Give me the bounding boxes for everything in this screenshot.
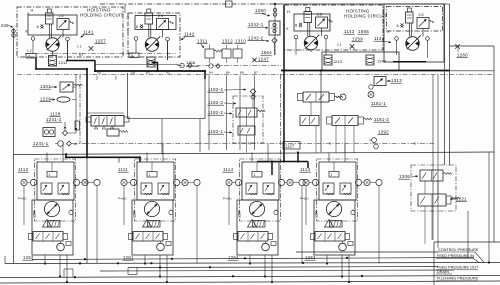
svg-text:1211: 1211 <box>59 60 68 65</box>
svg-text:1142: 1142 <box>184 32 195 37</box>
assembly 1111 pilot valve right <box>158 183 169 194</box>
svg-text:1241-1: 1241-1 <box>33 141 49 146</box>
center distribution box <box>127 73 129 119</box>
assembly 1114 upper box <box>242 162 279 200</box>
svg-text:1 1: 1 1 <box>77 45 82 49</box>
svg-text:1259: 1259 <box>352 37 363 42</box>
bus junction dots <box>84 258 86 260</box>
svg-text:1128: 1128 <box>50 112 61 117</box>
svg-text:1258: 1258 <box>186 60 195 65</box>
svg-text:1264: 1264 <box>228 255 239 260</box>
svg-text:P=(G): P=(G) <box>118 197 127 201</box>
wire 1250 column <box>274 4 276 55</box>
svg-text:1242-1: 1242-1 <box>248 22 264 27</box>
assembly 1111 small fitting right <box>166 242 171 246</box>
wire drop verticals left group <box>75 75 77 134</box>
block3 control valve box <box>294 14 330 31</box>
legend box <box>433 242 435 285</box>
wire block2 port drops <box>135 40 137 53</box>
assembly 1114 pilot valve left <box>246 183 257 194</box>
wire block1 port drops <box>32 40 34 53</box>
assembly 1112 upper box <box>37 162 74 200</box>
svg-text:B4: B4 <box>209 71 213 75</box>
port circle block4 left <box>395 37 399 41</box>
svg-text:1263: 1263 <box>305 255 316 260</box>
test points on left vertical <box>12 29 15 32</box>
assembly 1113 motor <box>326 201 341 216</box>
svg-text:1229: 1229 <box>40 97 51 102</box>
assembly 1113 hatched block <box>330 221 343 228</box>
assembly 1112 motor <box>44 201 59 216</box>
gauge pair box <box>43 128 55 137</box>
winch valve assembly 1111 boundary <box>135 159 176 221</box>
manifold drain triangles <box>94 126 114 129</box>
legend leader slashes <box>475 252 484 263</box>
valve 1206 <box>420 170 443 181</box>
assembly 1112 directional valve <box>33 232 63 242</box>
svg-text:1311: 1311 <box>197 39 208 44</box>
assembly 1113 small fitting right <box>348 242 353 246</box>
arrow down to orifice <box>64 122 66 130</box>
hoisting holding circuit block 1 boundary <box>17 7 123 57</box>
svg-text:1112: 1112 <box>18 167 29 172</box>
wires 1182 block feeds <box>252 94 254 99</box>
wire left vertical main <box>13 28 15 264</box>
valve 1313 <box>374 77 386 86</box>
assembly 1111 upper box <box>137 162 174 200</box>
pump U4 (1144 circuit) <box>397 8 435 50</box>
svg-text:249: 249 <box>1 23 9 28</box>
assembly 1111 aux port <box>169 210 173 214</box>
wire top bus right cap <box>445 3 450 5</box>
wire block3 port drops <box>295 39 297 55</box>
assembly 1112 aux port <box>69 210 73 214</box>
bus line bottom y282 <box>0 281 500 283</box>
port circle block1 left <box>31 37 35 41</box>
svg-text:1113: 1113 <box>300 167 311 172</box>
svg-text:1 2: 1 2 <box>27 49 32 53</box>
assembly 1112 check circle <box>57 243 65 251</box>
wire block2 top stub <box>124 4 126 13</box>
assembly 1111 brake triangle <box>143 220 152 228</box>
port circle block2 right <box>166 37 170 41</box>
bus line y276.5 <box>0 276 500 278</box>
assembly 1111 directional valve <box>133 232 163 242</box>
svg-text:X: X <box>286 27 289 31</box>
wires valve feeds <box>310 102 312 116</box>
thick pressure line A left <box>35 58 37 70</box>
assembly 1111 lower box <box>132 200 173 255</box>
assembly 1114 solenoid <box>252 172 262 178</box>
assembly 1113 check circle <box>339 243 347 251</box>
svg-text:1241-2: 1241-2 <box>46 117 62 122</box>
check valve block 1242-1 <box>269 21 280 35</box>
svg-text:1247: 1247 <box>258 57 269 62</box>
assembly 1113 upper box <box>319 162 356 200</box>
assembly 1111 solenoid <box>147 172 157 178</box>
block 1206/1221 boundary <box>411 165 456 211</box>
accumulator 1248 bellows <box>366 55 374 65</box>
block 4 outer box <box>384 4 444 62</box>
svg-text:X: X <box>25 30 28 34</box>
svg-text:H: H <box>127 16 130 20</box>
orifice diamond <box>62 130 67 135</box>
assembly 1113 solenoid <box>329 172 339 178</box>
bus line feed y252 <box>296 251 438 253</box>
svg-text:1181-1: 1181-1 <box>371 101 386 106</box>
svg-text:1301: 1301 <box>40 84 51 89</box>
assembly 1114 lower box <box>237 200 278 255</box>
1182 valve cluster dash-dot box <box>233 96 263 143</box>
symbols near 1392 <box>372 138 377 143</box>
svg-text:X: X <box>387 30 390 34</box>
assembly 1111 port circles <box>121 179 127 185</box>
assembly 1114 pilot valve right <box>263 183 274 194</box>
junction dots mid <box>86 68 88 70</box>
pilot dash-dot line y65.5 <box>177 65 281 67</box>
svg-text:B8: B8 <box>240 71 244 75</box>
directional valve group C (x300-320,y114-127) <box>300 116 319 126</box>
assembly 1111 motor <box>144 201 159 216</box>
wire long horizontal y152.5 <box>14 152 495 155</box>
svg-text:1182-3: 1182-3 <box>208 100 223 105</box>
svg-text:1250: 1250 <box>255 8 266 13</box>
svg-text:X: X <box>27 12 30 16</box>
assembly 1114 small fitting right <box>271 242 276 246</box>
assembly 1114 drop wires bottom <box>249 256 251 264</box>
directional valve group B (x330-364,y114-126) <box>332 116 358 126</box>
orifice 1242-2 <box>272 38 277 43</box>
pump U1 (1141 circuit) <box>37 9 75 51</box>
assembly 1111 gauge drop <box>196 186 198 264</box>
accumulator 1212 bellows <box>147 57 155 67</box>
svg-text:B1: B1 <box>79 53 84 57</box>
bus line y258.5 <box>32 258 474 260</box>
svg-text:1312: 1312 <box>222 39 233 44</box>
assembly 1111 pilot valve left <box>141 183 152 194</box>
circle gauge right of valve A <box>340 94 346 100</box>
control dash-dot line y143.5 <box>72 143 434 145</box>
svg-text:1392: 1392 <box>378 130 389 135</box>
bus notch x64 <box>63 269 65 277</box>
assembly 1113 brake triangle <box>325 220 334 228</box>
svg-text:1665: 1665 <box>358 29 369 34</box>
svg-text:1144: 1144 <box>374 36 385 41</box>
thick feeds to assemblies 1-2 <box>65 154 67 157</box>
port circle block3 left <box>294 35 298 39</box>
svg-text:1664: 1664 <box>261 50 272 55</box>
svg-text:1: 1 <box>149 173 151 177</box>
bus line y267.5 partial <box>128 267 438 268</box>
svg-text:Q8: Q8 <box>131 71 135 75</box>
bus line y263.5 <box>5 263 500 264</box>
assembly 1111 feed wires top <box>146 153 148 163</box>
svg-text:DRAIN: DRAIN <box>437 270 449 274</box>
sub valve under manifold <box>107 129 119 136</box>
valve 1311 <box>205 49 214 58</box>
svg-text:1B: 1B <box>74 142 78 146</box>
pilot dash-dot line y74.5 full <box>17 74 494 76</box>
assembly 1112 drop wires bottom <box>44 256 46 264</box>
assembly 1111 drop wires bottom <box>144 256 146 264</box>
small box left of manifold <box>75 121 80 130</box>
svg-text:H: H <box>287 10 290 14</box>
assembly 1114 feed wires top <box>251 153 253 163</box>
thick vertical x284 <box>283 5 285 162</box>
thick edge under block4 <box>393 61 426 63</box>
svg-text:1213: 1213 <box>333 59 342 64</box>
svg-text:1: 1 <box>49 173 51 177</box>
assembly 1113 directional valve <box>315 232 345 242</box>
svg-text:1248: 1248 <box>377 59 386 64</box>
svg-text:HOLDING CIRCUIT: HOLDING CIRCUIT <box>80 13 124 18</box>
component small fitting on top bus <box>226 1 233 7</box>
manifold solenoid tabs <box>86 117 91 122</box>
assembly 1112 port circles <box>21 179 27 185</box>
svg-text:1182-1: 1182-1 <box>208 129 223 134</box>
assembly 1112 feed wires top <box>46 153 48 163</box>
assembly 1112 gauge drop <box>96 186 98 264</box>
pump U3 (1143 circuit) <box>295 8 333 50</box>
wires manifold <box>87 112 124 114</box>
assembly 1113 aux port <box>351 210 355 214</box>
gauge circles under 1313 <box>369 85 373 89</box>
assembly 1114 directional valve <box>238 232 268 242</box>
svg-text:1181-2: 1181-2 <box>374 117 389 122</box>
assembly 1111 check circle <box>157 243 165 251</box>
svg-text:1313: 1313 <box>391 78 402 83</box>
winch valve assembly 1112 boundary <box>35 159 76 221</box>
thick stub block2 <box>152 62 158 64</box>
svg-text:P=(G): P=(G) <box>300 197 309 201</box>
manifold box blocks 3-4 <box>322 52 399 71</box>
svg-text:P=(G): P=(G) <box>223 197 232 201</box>
assembly 1113 port circles <box>303 179 309 185</box>
pilot dash-dot vertical x280.5 <box>280 75 282 162</box>
svg-text:FEED PRESSURE IN: FEED PRESSURE IN <box>437 254 474 258</box>
assembly 1112 pilot valve right <box>58 183 69 194</box>
svg-text:1: 1 <box>331 173 333 177</box>
bus notch x128 <box>127 268 129 275</box>
assembly 1113 pilot valve left <box>323 183 334 194</box>
manifold arrows <box>94 118 113 125</box>
block 4 inner dashed boundary <box>387 7 443 32</box>
thick pressure line B left <box>66 60 95 62</box>
assembly 1112 hatched block <box>48 221 61 228</box>
svg-text:1143: 1143 <box>344 29 355 34</box>
directional valve group A (x300-335,y90-103) <box>303 92 329 102</box>
svg-text:A2: A2 <box>166 71 170 75</box>
svg-text:B7: B7 <box>254 71 258 75</box>
control line tick marks <box>161 142 163 145</box>
svg-text:1114: 1114 <box>223 167 234 172</box>
winch valve assembly 1113 boundary <box>317 159 358 221</box>
assembly 1113 pilot valve right <box>340 183 351 194</box>
accumulator 1213 bellows <box>324 55 332 65</box>
port circle block4 right <box>426 37 430 41</box>
wire drops right of center <box>208 76 210 151</box>
assembly 1113 lower box <box>314 200 355 255</box>
thick main bus center <box>94 70 205 72</box>
port circle block3 right <box>324 35 328 39</box>
svg-text:1254: 1254 <box>238 210 242 218</box>
accumulator 1211 bellows <box>49 56 57 67</box>
bus tick stubs <box>96 76 98 81</box>
svg-text:1: 1 <box>254 173 256 177</box>
pilot valve manifold 1128 <box>91 116 124 127</box>
svg-text:1254: 1254 <box>33 210 37 218</box>
assembly 1114 aux port <box>274 210 278 214</box>
assembly 1114 hatched block <box>253 221 266 228</box>
thick feeds to assemblies 3-4 <box>257 161 308 163</box>
svg-text:1257: 1257 <box>95 39 106 44</box>
valve 1182 lower <box>238 126 255 135</box>
wire vertical x321 <box>320 71 322 153</box>
valve A box under block1 <box>26 54 36 59</box>
winch valve assembly 1114 boundary <box>240 159 281 221</box>
valve A box under block2 <box>129 53 139 58</box>
label 1127 box <box>283 142 300 150</box>
assembly 1113 feed wires top <box>328 153 330 163</box>
orifice 1182-4 <box>250 89 256 95</box>
svg-text:1221: 1221 <box>456 197 467 202</box>
assembly 1112 small fitting right <box>66 242 71 246</box>
svg-text:1260: 1260 <box>457 53 468 58</box>
valve 1182 upper <box>236 108 257 117</box>
svg-text:1127: 1127 <box>285 144 295 149</box>
assembly 1114 gauge drop <box>301 186 303 264</box>
svg-text:1206: 1206 <box>399 174 410 179</box>
svg-text:1141: 1141 <box>83 30 94 35</box>
svg-text:1254: 1254 <box>133 210 137 218</box>
gauge circle+orifice row <box>58 141 64 147</box>
svg-text:1182-4: 1182-4 <box>208 87 223 92</box>
relief valve 1301 <box>60 82 73 92</box>
assembly 1114 brake triangle <box>248 220 257 228</box>
block2 control valve box <box>135 16 176 30</box>
port circle block1 right <box>66 37 70 41</box>
hoisting holding circuit block 2 boundary <box>128 13 180 57</box>
assembly 1114 port circles <box>226 179 232 185</box>
valve 1310 <box>233 49 242 58</box>
svg-text:1242-2: 1242-2 <box>248 36 264 41</box>
assembly 1113 drop wires bottom <box>326 256 328 264</box>
svg-text:1310: 1310 <box>235 39 246 44</box>
wire verticals right side <box>444 4 446 165</box>
svg-text:1182-2: 1182-2 <box>208 110 223 115</box>
port circle block2 left <box>134 37 138 41</box>
assembly 1112 brake triangle <box>43 220 52 228</box>
svg-text:1254: 1254 <box>315 210 319 218</box>
svg-text:H: H <box>31 9 34 13</box>
svg-text:B2: B2 <box>146 71 150 75</box>
thick right bus <box>281 70 450 72</box>
gauge circle 1258 <box>180 63 184 67</box>
wire block4 port drops <box>396 40 398 55</box>
block1 control valve box <box>28 15 77 35</box>
valve 1312 <box>222 49 231 58</box>
svg-text:CONTROL PRESSURE: CONTROL PRESSURE <box>438 248 479 252</box>
wire pilot return y64.5 <box>95 64 179 66</box>
svg-text:X: X <box>127 28 130 32</box>
wires 1206 block <box>424 181 426 194</box>
svg-text:P=(G): P=(G) <box>18 197 27 201</box>
bus line drain y270.5 <box>100 270 454 271</box>
test points 1250 <box>273 8 276 11</box>
svg-text:1111: 1111 <box>118 167 128 172</box>
assembly 1111 hatched block <box>148 221 161 228</box>
svg-text:6Q: 6Q <box>97 71 102 75</box>
assembly 1113 gauge drop <box>378 186 380 264</box>
assembly 1114 check circle <box>262 243 270 251</box>
assembly 1112 pilot valve left <box>41 183 52 194</box>
svg-text:FLUSHING PRESSURE: FLUSHING PRESSURE <box>437 277 479 281</box>
pump U2 (1142 circuit) <box>136 9 174 51</box>
hoisting holding circuit block 3 boundary <box>284 5 383 50</box>
svg-text:B6: B6 <box>226 71 230 75</box>
svg-text:1 1: 1 1 <box>337 43 342 47</box>
pilot dash-dot line y53.5 <box>25 53 176 55</box>
svg-text:HOLDING CIRCUIT: HOLDING CIRCUIT <box>344 14 388 19</box>
assembly 1114 motor <box>249 201 264 216</box>
assembly 1112 lower box <box>32 200 73 255</box>
wire x87 lower <box>86 157 88 264</box>
wire top bus <box>100 3 275 5</box>
assembly 1112 solenoid <box>47 172 57 178</box>
valve 1221 <box>418 194 446 206</box>
sensor capsule 1229 <box>57 97 70 102</box>
wire feeds asm2 <box>161 119 163 155</box>
